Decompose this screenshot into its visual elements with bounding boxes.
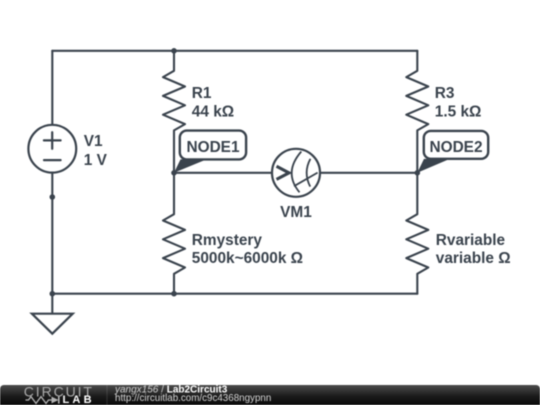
footer divider <box>106 385 108 405</box>
node NODE2 callout <box>417 131 488 173</box>
junction bottom of Rmystery <box>171 291 177 297</box>
wire VM1 to NODE2 <box>320 172 417 174</box>
wire V1 bottom lead <box>51 173 53 294</box>
label V1 value <box>84 133 108 169</box>
wire V1 top lead <box>51 51 53 125</box>
wire top <box>52 50 417 52</box>
resistor Rvariable <box>406 173 428 294</box>
label R1 value <box>192 85 234 120</box>
label Rvariable value <box>436 232 511 267</box>
junction below V1 <box>50 194 56 200</box>
node NODE1 callout <box>174 131 246 173</box>
logo waveform <box>26 397 52 404</box>
ground <box>32 294 73 334</box>
logo diode <box>52 397 59 404</box>
wire NODE1 to VM1 <box>174 172 272 174</box>
junction top of R1 <box>171 48 177 54</box>
resistor R1 <box>163 51 185 173</box>
wire bottom <box>52 293 417 295</box>
label R3 value <box>435 85 482 120</box>
resistor R3 <box>406 51 428 173</box>
junction node NODE2 <box>415 170 421 176</box>
footer bar <box>0 385 540 405</box>
svg-text:LAB: LAB <box>63 394 95 405</box>
voltmeter VM1 <box>272 149 320 197</box>
voltage source V1 <box>28 125 76 173</box>
resistor Rmystery <box>163 173 185 294</box>
svg-text:http://circuitlab.com/c9c4368n: http://circuitlab.com/c9c4368ngypnn <box>115 393 271 404</box>
junction node NODE1 <box>171 170 177 176</box>
junction ground corner <box>50 291 56 297</box>
label Rmystery value <box>192 232 303 267</box>
